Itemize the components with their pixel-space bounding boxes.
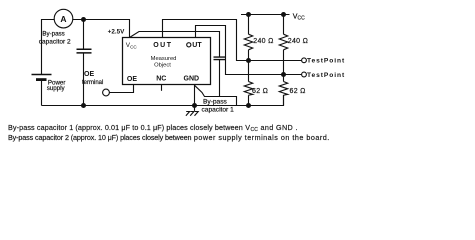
- node vcc rail B: [281, 12, 286, 17]
- wire Vcc top rail: [241, 14, 290, 16]
- node row1 column A: [246, 58, 251, 63]
- node gnd-rail: [192, 103, 197, 108]
- ammeter A1: [54, 9, 73, 28]
- wire capacitor C1 bottom lead: [219, 60, 221, 97]
- wire left rail top: [42, 20, 55, 75]
- node cap2-ground: [81, 103, 86, 108]
- terminal test point 1: [302, 58, 307, 63]
- node vcc rail A: [246, 12, 251, 17]
- resistor R1 240 ohm zigzag: [244, 34, 252, 50]
- resistor R4 62 ohm leads: [283, 75, 285, 106]
- resistor R4 62 ohm zigzag: [279, 82, 287, 96]
- node supply junction: [81, 17, 86, 22]
- svg-text:TestPoint: TestPoint: [307, 58, 345, 65]
- svg-text:240 Ω: 240 Ω: [288, 38, 308, 45]
- capacitor C1 (by-pass capacitor 1): [214, 57, 226, 60]
- battery BT1 plate long: [32, 74, 52, 76]
- pin OUT2 ring: [187, 43, 191, 47]
- svg-text:supply: supply: [47, 85, 66, 92]
- terminal OE circle: [103, 89, 110, 96]
- svg-text:62 Ω: 62 Ω: [252, 88, 268, 95]
- svg-text:240 Ω: 240 Ω: [253, 38, 273, 45]
- svg-text:A: A: [60, 14, 66, 24]
- svg-text:VCC: VCC: [293, 13, 305, 21]
- resistor R1 240 ohm leads: [248, 15, 250, 61]
- svg-text:OE: OE: [127, 76, 137, 83]
- wire ground rail: [42, 95, 284, 106]
- wire OUT2 to test point row 2: [196, 26, 302, 75]
- wire ammeter to Vcc pin: [73, 20, 130, 38]
- svg-text:Object: Object: [154, 62, 171, 68]
- wire bypass capacitor 2 bottom lead: [83, 53, 85, 106]
- svg-text:OUT: OUT: [153, 42, 172, 49]
- svg-text:By-pass capacitor 1 (approx. 0: By-pass capacitor 1 (approx. 0.01 μF to …: [8, 123, 298, 133]
- pin NC stub: [161, 85, 163, 91]
- node row2 column B: [281, 72, 286, 77]
- svg-text:capacitor 2: capacitor 2: [39, 38, 71, 45]
- svg-text:By-pass: By-pass: [203, 99, 228, 106]
- svg-text:capacitor 1: capacitor 1: [202, 106, 235, 113]
- svg-text:OE: OE: [84, 71, 94, 78]
- svg-text:Measured: Measured: [151, 56, 177, 62]
- resistor R2 240 ohm zigzag: [279, 34, 287, 50]
- svg-text:UT: UT: [192, 42, 202, 49]
- wire GND drop: [194, 85, 196, 106]
- ground symbol: [186, 106, 198, 116]
- wire GND diagonal to bypass line: [195, 85, 237, 105]
- node r62a-rail: [246, 103, 251, 108]
- battery BT1 plate short: [36, 78, 47, 81]
- svg-text:62 Ω: 62 Ω: [290, 88, 306, 95]
- svg-text:By-pass: By-pass: [42, 30, 64, 37]
- svg-text:VCC: VCC: [126, 42, 138, 49]
- resistor R3 62 ohm leads: [248, 61, 250, 106]
- wire left rail bottom: [41, 81, 43, 106]
- resistor R2 240 ohm leads: [283, 15, 285, 75]
- capacitor C2 (by-pass capacitor 2): [77, 49, 92, 53]
- wire Vcc diagonal rail to capacitor C1: [130, 32, 220, 58]
- svg-text:TestPoint: TestPoint: [307, 72, 345, 79]
- wire OUT1 to test point row 1: [163, 20, 302, 61]
- svg-text:By-pass capacitor 2 (approx. 1: By-pass capacitor 2 (approx. 10 μF) plac…: [8, 133, 330, 142]
- svg-text:NC: NC: [156, 75, 166, 82]
- svg-text:terminal: terminal: [82, 80, 103, 86]
- terminal test point 2: [302, 72, 307, 77]
- svg-text:+2.5V: +2.5V: [108, 29, 125, 36]
- op-amp U1 measured object box: [123, 38, 211, 85]
- resistor R3 62 ohm zigzag: [244, 82, 252, 96]
- svg-text:GND: GND: [184, 75, 200, 82]
- wire OE: [110, 85, 134, 93]
- wire bypass capacitor 2 top lead: [83, 20, 85, 50]
